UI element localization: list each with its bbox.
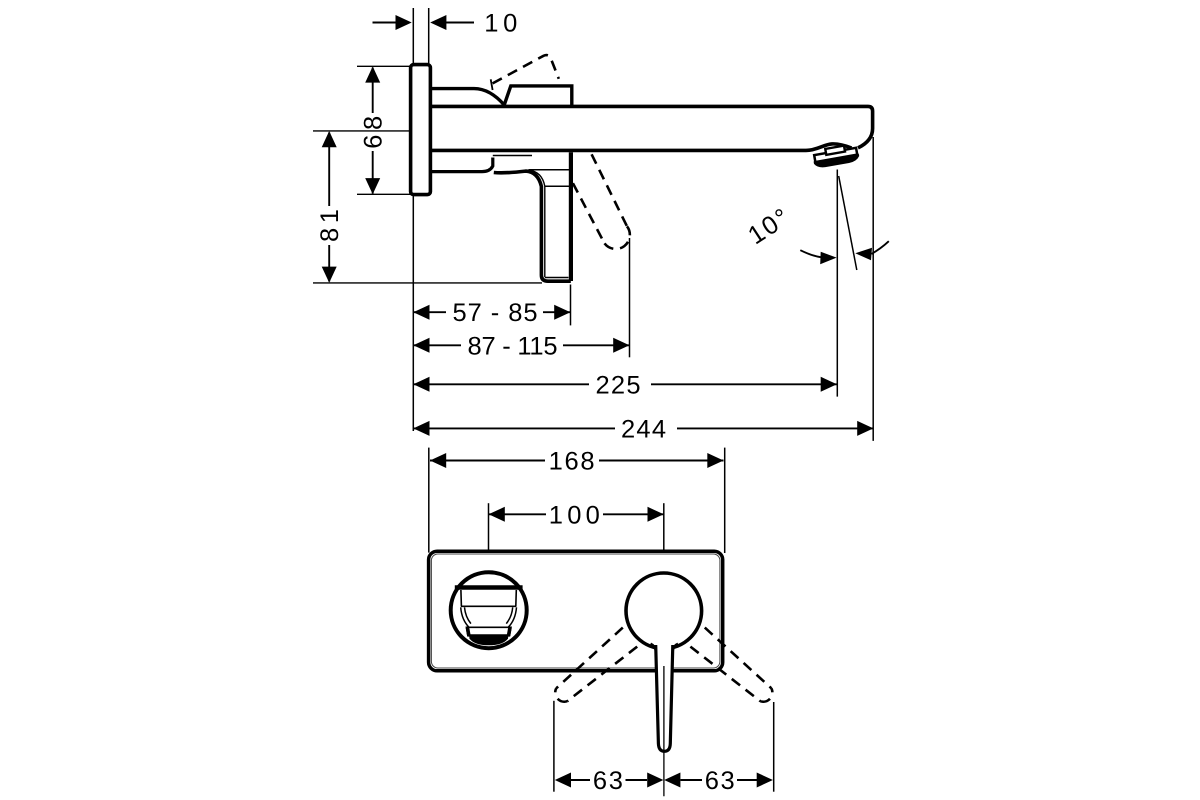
dim 63 centre right-pointing arrow xyxy=(647,773,663,788)
svg-text:168: 168 xyxy=(549,448,595,476)
dim 63 left outer arrow xyxy=(555,773,571,788)
dim 63 right outer arrow xyxy=(757,773,773,788)
dashed lever left position xyxy=(555,628,637,702)
dim 10 line right part xyxy=(446,22,474,24)
dashed lever right position xyxy=(690,628,772,702)
wall plate front view xyxy=(429,551,723,671)
angle arc left tail xyxy=(800,250,821,257)
dim 225 right arrow xyxy=(821,377,837,392)
dim 81 arrow down xyxy=(322,267,337,283)
handle arm top line xyxy=(493,155,532,157)
dim 57-85 right arrow xyxy=(554,305,570,320)
svg-text:63: 63 xyxy=(705,767,735,795)
dashed lever extension line xyxy=(629,238,631,357)
dim 87-115 line xyxy=(413,344,629,346)
angle vertical line xyxy=(836,170,838,397)
plate front extension line xyxy=(428,8,430,65)
dim 81 top tick xyxy=(313,130,411,132)
dim 100 line xyxy=(489,513,664,515)
dim 87-115 left arrow xyxy=(413,338,429,353)
dim 10 line left part xyxy=(373,22,398,24)
cartridge cover trapezoid xyxy=(504,86,572,106)
lower valve body outline xyxy=(430,158,492,172)
angle tilted line xyxy=(839,176,857,270)
spout top outline xyxy=(430,106,872,147)
dim 68 arrow down xyxy=(365,178,380,194)
dim 100 left extension line xyxy=(488,503,490,557)
dim 63 left line xyxy=(571,779,647,781)
dim 100 right arrow xyxy=(648,507,664,522)
dim 244 line xyxy=(413,427,873,429)
dim 81 bottom tick xyxy=(313,282,542,284)
faucet neck top curve xyxy=(430,89,504,106)
angle arc left arrowhead xyxy=(820,252,836,264)
wall surface line xyxy=(412,8,414,431)
dim 63 left extension line xyxy=(553,701,555,792)
handle arm bottom and grip outline xyxy=(494,171,571,281)
escutcheon plate side view xyxy=(411,65,431,195)
wall plate inner edge xyxy=(431,554,720,668)
dim 63 centre left-pointing arrow xyxy=(664,773,680,788)
dim 168 right extension line xyxy=(724,448,726,553)
angle arc right arrowhead xyxy=(855,248,872,261)
dim 225 line xyxy=(413,383,837,385)
spout bottom outline xyxy=(430,144,851,151)
dim 87-115 right arrow xyxy=(613,338,629,353)
aerator nozzle xyxy=(812,143,860,169)
handle stem front xyxy=(656,645,673,751)
dim 68 bottom tick xyxy=(357,193,411,195)
aerator collar side posts xyxy=(467,627,510,635)
handle grip back edge xyxy=(569,152,573,281)
handle arm shoulder line xyxy=(529,169,570,171)
handle centre extension line xyxy=(663,666,665,796)
dim 168 left arrow xyxy=(430,453,446,468)
dim 57-85 left arrow xyxy=(413,305,429,320)
dim 225 left arrow xyxy=(413,377,429,392)
dim 81 line xyxy=(328,133,330,282)
dim 68 top tick xyxy=(357,65,411,67)
dim 100 right extension line xyxy=(663,503,665,552)
dim 168 right arrow xyxy=(707,453,723,468)
dashed lever extended position xyxy=(573,154,630,249)
handle stem white mask xyxy=(654,643,674,751)
svg-text:244: 244 xyxy=(621,415,671,443)
svg-text:87 - 115: 87 - 115 xyxy=(468,332,558,360)
dim 68 arrow up xyxy=(365,66,380,82)
dim 168 left extension line xyxy=(428,448,430,553)
dim 10 arrow right-pointing xyxy=(396,15,412,30)
handle escutcheon circle xyxy=(626,573,702,649)
dim 81 arrow up xyxy=(322,131,337,147)
dim 57-85 line xyxy=(413,311,570,313)
dim 168 line xyxy=(430,460,724,462)
svg-text:63: 63 xyxy=(593,767,623,795)
angle arc right tail xyxy=(872,241,889,254)
dashed lever raised position xyxy=(493,55,559,83)
dim 63 right line xyxy=(681,779,758,781)
aerator collar front xyxy=(467,627,511,636)
dim 10 arrow left-pointing xyxy=(430,15,446,30)
dim 68 line xyxy=(372,68,374,194)
dim 244 left arrow xyxy=(413,421,429,436)
spout front top edge xyxy=(455,585,523,589)
spout front bowl curves xyxy=(461,607,517,627)
dim 244 right arrow xyxy=(857,421,873,436)
spout tip extension line xyxy=(872,137,874,441)
dashed lever up tick xyxy=(491,79,493,90)
dim 100 left arrow xyxy=(489,507,505,522)
svg-text:225: 225 xyxy=(596,371,646,399)
spout escutcheon circle xyxy=(451,572,527,648)
aerator face black xyxy=(469,634,509,645)
dim 63 right extension line xyxy=(773,702,775,792)
handle stem fillets xyxy=(651,644,678,651)
spout front sides xyxy=(461,590,516,606)
handle inner detail lines xyxy=(529,170,569,277)
svg-text:100: 100 xyxy=(549,501,600,529)
svg-text:57 - 85: 57 - 85 xyxy=(453,299,538,327)
handle extension line xyxy=(570,285,572,326)
handle hub line xyxy=(545,185,569,187)
